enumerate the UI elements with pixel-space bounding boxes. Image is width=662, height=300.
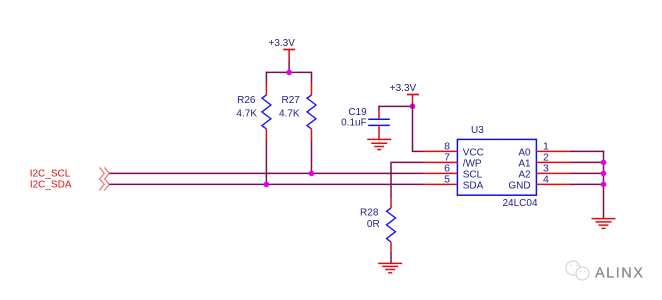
junction R26/SDA <box>264 182 270 188</box>
off-sheet connector chevrons I2C_SCL <box>99 167 109 179</box>
svg-text:0.1uF: 0.1uF <box>341 118 367 129</box>
svg-text:GND: GND <box>508 181 530 192</box>
wire R27 to SCL <box>311 140 313 173</box>
svg-text:I2C_SDA: I2C_SDA <box>30 180 72 191</box>
svg-text:4.7K: 4.7K <box>236 109 257 120</box>
wire I2C_SCL horizontal <box>109 172 423 174</box>
net label I2C_SCL <box>30 169 71 180</box>
ground under R28 <box>378 263 402 272</box>
svg-text:A1: A1 <box>518 159 531 170</box>
watermark text ALINX <box>595 266 644 282</box>
wire I2C_SDA horizontal <box>109 183 423 185</box>
svg-text:R28: R28 <box>360 207 379 218</box>
svg-text:A2: A2 <box>518 170 531 181</box>
wire R28 to ground <box>390 252 392 264</box>
resistor R27 <box>279 83 316 140</box>
resistor R26 <box>236 83 270 140</box>
svg-text:SCL: SCL <box>463 170 483 181</box>
wire R26 to SDA <box>265 140 267 184</box>
pin 7 /WP <box>423 152 482 170</box>
svg-text:0R: 0R <box>367 219 380 230</box>
svg-text:SDA: SDA <box>463 181 484 192</box>
pin 5 SDA <box>423 174 484 192</box>
pin 1 A0 <box>518 141 570 159</box>
pin 6 SCL <box>423 163 483 181</box>
wire top rail <box>266 72 313 83</box>
resistor R28 <box>360 198 395 252</box>
svg-text:R26: R26 <box>237 95 256 106</box>
wire pin3 to ground bus <box>570 172 604 174</box>
wire pin2 to ground bus <box>570 161 604 163</box>
wire pin7 to R28 <box>390 162 423 198</box>
junction pin3/bus <box>601 171 607 177</box>
pin 2 A1 <box>518 152 570 170</box>
svg-text:R27: R27 <box>282 95 301 106</box>
svg-text:VCC: VCC <box>463 148 484 159</box>
svg-text:24LC04: 24LC04 <box>503 198 538 209</box>
pin 4 GND <box>508 174 570 192</box>
ground under C19 <box>367 139 391 149</box>
junction pin4/bus <box>601 182 607 188</box>
junction pin2/bus <box>601 160 607 166</box>
IC U3 24LC04 body <box>457 125 538 209</box>
junction R27/SCL <box>309 171 315 177</box>
wire ground bus vertical <box>603 151 605 219</box>
wire pin1 to ground bus <box>570 150 604 152</box>
svg-text:C19: C19 <box>348 107 367 118</box>
wire C19 top to power junction <box>378 105 412 107</box>
power +3.3V (left) <box>269 38 296 61</box>
wire power-middle to pin8 <box>412 104 423 152</box>
svg-text:4: 4 <box>543 174 549 186</box>
svg-text:+3.3V: +3.3V <box>269 38 296 49</box>
net label I2C_SDA <box>30 180 72 191</box>
capacitor C19 <box>341 106 390 139</box>
ground right of IC <box>592 219 616 229</box>
pin 3 A2 <box>518 163 570 181</box>
pin 8 VCC <box>423 141 484 159</box>
svg-text:/WP: /WP <box>463 159 482 170</box>
wire power-left to junction <box>288 61 290 72</box>
wire pin4 to ground bus <box>570 183 604 185</box>
junction power-middle <box>410 104 416 110</box>
svg-text:4.7K: 4.7K <box>279 109 300 120</box>
power +3.3V (middle) <box>390 83 419 104</box>
svg-text:+3.3V: +3.3V <box>390 83 417 94</box>
svg-text:U3: U3 <box>471 125 484 136</box>
svg-text:ALINX: ALINX <box>595 266 644 282</box>
junction top rail <box>286 70 292 76</box>
svg-text:I2C_SCL: I2C_SCL <box>30 169 71 180</box>
off-sheet connector chevrons I2C_SDA <box>99 178 109 190</box>
watermark wechat icon <box>566 261 589 280</box>
svg-text:5: 5 <box>444 174 450 186</box>
svg-text:A0: A0 <box>518 148 531 159</box>
